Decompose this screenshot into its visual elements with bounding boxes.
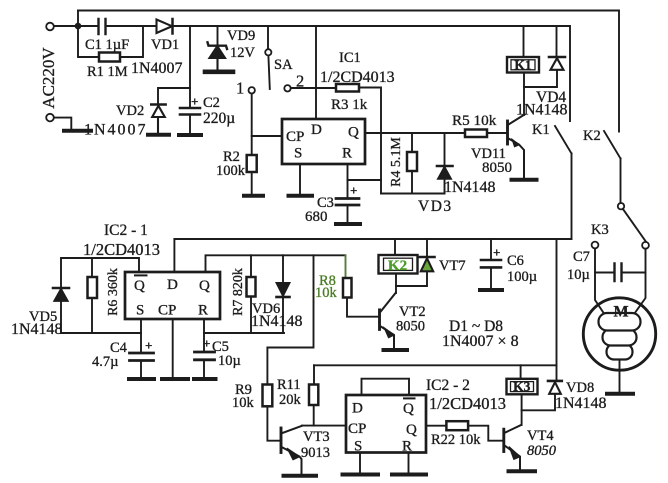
ground (VD9): [205, 70, 233, 75]
wire K3 right contact to motor: [635, 249, 646, 314]
capacitor C2: [180, 108, 200, 115]
diode VD8: [548, 381, 562, 394]
svg-text:1N4007: 1N4007: [131, 60, 183, 77]
wire 12V supply line VD1 to K1 corner: [173, 26, 570, 121]
IC2-1 box (1/2CD4013): [125, 272, 220, 319]
svg-text:1N4007: 1N4007: [84, 122, 148, 139]
svg-text:+: +: [203, 336, 210, 351]
switch K2 blade: [604, 131, 621, 159]
wire R9 bottom to VT3 base: [267, 406, 279, 440]
svg-text:1N4148: 1N4148: [555, 395, 607, 412]
svg-text:VT4: VT4: [527, 428, 554, 444]
wire R6 top lead: [91, 258, 93, 277]
switch K3 right contact: [642, 242, 649, 249]
AC terminal N circle: [46, 114, 54, 122]
svg-text:CP: CP: [158, 303, 176, 319]
wire K3 left contact to motor: [595, 248, 604, 313]
svg-text:S: S: [136, 303, 144, 319]
svg-text:8050: 8050: [396, 319, 425, 335]
svg-text:R7 820k: R7 820k: [231, 268, 246, 316]
resistor R6: [88, 277, 98, 298]
transistor VT3 (9013): [281, 426, 302, 474]
diode VT7 (green): [420, 257, 435, 271]
transistor VT4 (8050): [504, 425, 521, 470]
svg-text:IC2 - 2: IC2 - 2: [426, 377, 470, 394]
svg-text:10k: 10k: [315, 285, 338, 301]
ground (VT2 emitter): [384, 348, 408, 352]
wire VD4 bottom link to K1 coil: [524, 70, 557, 87]
svg-text:C7: C7: [573, 249, 590, 265]
ground (IC2-1 CP): [162, 377, 188, 381]
svg-text:8050: 8050: [527, 443, 557, 459]
svg-text:D: D: [311, 122, 322, 138]
capacitor C7: [615, 264, 622, 282]
svg-text:+: +: [191, 94, 198, 109]
wire R-pin net horizontal: [204, 332, 284, 334]
svg-text:R: R: [198, 303, 208, 319]
wire K1 coil bottom to collector: [523, 73, 525, 116]
wire IC1 Q output to R5: [365, 132, 465, 134]
wire VD6 top lead: [282, 255, 284, 282]
svg-text:R4 5.1M: R4 5.1M: [389, 137, 404, 187]
resistor R8: [343, 278, 352, 298]
wire drop to C2: [189, 26, 191, 107]
relay coil K3: [507, 379, 538, 395]
wire drop to VD9: [217, 26, 219, 44]
wire K1 coil top lead: [523, 26, 525, 57]
wire SA1 down to R2: [251, 94, 253, 155]
svg-text:680: 680: [305, 209, 328, 225]
wire 12V switched bus: [174, 238, 571, 240]
wire C6 to ground: [490, 268, 492, 288]
wire R4 top lead: [411, 133, 413, 152]
svg-text:IC2 - 1: IC2 - 1: [104, 222, 148, 239]
wire bus drop to C6: [490, 239, 492, 259]
wire K3 coil top lead: [520, 365, 522, 379]
svg-text:Q: Q: [406, 422, 417, 438]
switch SA contact 2: [284, 85, 290, 91]
wire K2 coil bottom to VT2 collector: [395, 274, 397, 294]
diode VD4: [549, 57, 565, 70]
wire VD4 top lead: [556, 26, 558, 56]
svg-text:R: R: [342, 146, 352, 162]
ground (C4): [129, 377, 154, 381]
resistor R1: [99, 53, 120, 62]
capacitor C1: [99, 19, 106, 34]
svg-text:CP: CP: [286, 129, 304, 145]
svg-text:1: 1: [236, 79, 244, 98]
wire IC2-2 Q to R22: [426, 425, 446, 427]
wire R7 bottom lead: [250, 297, 252, 334]
transistor VD11 (8050): [508, 115, 525, 179]
svg-text:M: M: [614, 304, 629, 321]
ground (R2): [244, 194, 263, 198]
diode VD1: [157, 19, 173, 34]
switch K3 common contact: [618, 203, 624, 209]
svg-text:R5 10k: R5 10k: [452, 112, 497, 129]
wire IC1 R pin down to C3: [347, 164, 349, 198]
resistor R11: [309, 385, 318, 406]
wire IC2-1 Q net top: [206, 255, 346, 272]
pin Qbar overbar (IC2-1): [134, 274, 148, 276]
wire IC2-2 R pin to ground: [408, 453, 410, 473]
wire VD6 bottom lead: [282, 298, 284, 334]
wire C1 to VD1: [106, 25, 156, 27]
wire K2 to K3 common: [620, 159, 622, 204]
wire motor bottom to ground: [619, 360, 621, 392]
svg-text:K3: K3: [591, 222, 609, 238]
svg-text:+: +: [145, 338, 152, 353]
wire R4 bottom lead: [411, 171, 413, 194]
wire bus drop to K2 coil: [394, 239, 396, 255]
svg-text:S: S: [294, 146, 302, 162]
wire C7 left link: [595, 272, 615, 274]
resistor R4: [407, 152, 417, 171]
wire R3 right down to R-net: [359, 88, 381, 194]
zener diode VD9 12V: [208, 42, 228, 70]
svg-text:1N4148: 1N4148: [251, 313, 303, 330]
svg-text:SA: SA: [274, 57, 293, 73]
pin Qbar overbar (IC2-2): [403, 397, 416, 399]
svg-text:VT7: VT7: [439, 258, 466, 274]
switch SA common contact: [265, 49, 271, 55]
wire VD2 branch: [158, 88, 190, 103]
svg-text:D: D: [352, 401, 363, 417]
ground (C5): [194, 377, 216, 381]
ground (C2): [179, 133, 201, 137]
wire R6 bottom lead: [91, 298, 93, 333]
ground (AC N): [64, 129, 91, 133]
wire SA1 node to IC1 CP: [252, 135, 282, 137]
svg-text:S: S: [354, 439, 362, 455]
svg-text:VD1: VD1: [151, 37, 179, 53]
svg-text:CP: CP: [348, 421, 366, 437]
svg-text:9013: 9013: [301, 445, 330, 461]
wire C4 to ground: [140, 362, 142, 378]
svg-text:10µ: 10µ: [218, 353, 241, 369]
ground (VD2): [148, 133, 169, 137]
svg-text:VT3: VT3: [303, 429, 330, 445]
wire IC2-1 R pin to C5: [203, 319, 205, 351]
svg-text:VD2: VD2: [116, 103, 144, 119]
wire bus drop to IC2-1 D: [173, 239, 175, 272]
svg-text:+: +: [493, 245, 500, 260]
switch SA blade: [268, 56, 269, 89]
diode VD3: [437, 166, 453, 179]
svg-text:1N4148: 1N4148: [516, 102, 568, 119]
relay coil K1: [507, 57, 539, 73]
wire R-net bottom rail: [381, 193, 445, 195]
wire VD3 top lead: [444, 133, 446, 165]
wire R1 loop right: [120, 26, 143, 57]
svg-text:VD9: VD9: [227, 28, 255, 44]
wire VD3 bottom lead: [444, 179, 446, 194]
diode VD6: [277, 283, 290, 297]
svg-text:VD3: VD3: [418, 198, 453, 215]
capacitor C3: [336, 199, 359, 206]
svg-text:C2: C2: [203, 95, 220, 111]
op-amp IC1 box (1/2CD4013): [282, 119, 365, 164]
wire R8 bottom to VT2 base: [347, 298, 379, 317]
transistor VT2 (8050): [380, 293, 396, 349]
wire IC2-2 S pin to ground: [359, 453, 361, 473]
svg-text:C1 1µF: C1 1µF: [85, 37, 129, 53]
switch SA contact 1: [249, 87, 255, 93]
wire C3 to ground: [347, 206, 349, 222]
diode VD2: [151, 105, 165, 134]
resistor R9: [263, 385, 273, 407]
node junction dot: [75, 23, 82, 30]
ground (motor): [607, 392, 633, 396]
IC2-2 box (1/2CD4013): [346, 395, 426, 453]
svg-text:100µ: 100µ: [507, 269, 537, 285]
AC terminal L circle: [46, 23, 54, 31]
wire IC2-1 CP pin to ground: [172, 319, 174, 377]
ground (IC2-2 R): [392, 473, 426, 477]
wire IC1 S pin to ground: [299, 164, 301, 194]
wire drop to switch SA: [267, 26, 269, 48]
switch K3 left contact: [592, 242, 599, 249]
svg-text:K2: K2: [583, 128, 601, 144]
wire K1 switch down to bus: [571, 154, 573, 239]
resistor R22: [446, 421, 468, 430]
svg-text:R6 360k: R6 360k: [106, 268, 121, 316]
switch K3 blade: [623, 209, 646, 242]
svg-text:1/2CD4013: 1/2CD4013: [429, 394, 506, 413]
ground (IC2-2 S): [343, 473, 379, 477]
svg-text:Q: Q: [403, 401, 414, 417]
wire AC terminal L to junction: [54, 25, 98, 27]
wire IC2-2 D-Qbar jumper: [362, 379, 410, 395]
svg-text:12V: 12V: [230, 45, 256, 61]
svg-text:Q: Q: [199, 278, 210, 294]
svg-text:2: 2: [296, 72, 304, 91]
svg-text:Q: Q: [134, 278, 145, 294]
motor winding: [599, 313, 641, 360]
wire bus drop to VT7: [426, 239, 428, 256]
wire R8 top lead: [345, 255, 347, 278]
motor M body circle: [583, 298, 655, 370]
wire VD8 bottom link: [522, 394, 555, 410]
svg-text:1/2CD4013: 1/2CD4013: [320, 69, 395, 86]
wire horizontal 12V to R11: [314, 364, 557, 366]
wire K3 coil bottom to VT4 collector: [521, 395, 523, 426]
wire drop to IC1 D pin: [315, 26, 317, 119]
wire R5 to VT11 base: [487, 132, 507, 134]
wire IC2-1 Q down to R9/R11 column: [267, 255, 313, 384]
wire R1 loop left: [78, 26, 99, 57]
wire VD5 bottom lead: [61, 301, 141, 333]
wire R11 bottom lead: [313, 405, 315, 426]
svg-text:10µ: 10µ: [567, 267, 590, 283]
svg-text:K2: K2: [388, 258, 407, 274]
resistor R2: [247, 155, 257, 172]
wire C5 to ground: [203, 361, 205, 377]
resistor R5: [465, 130, 487, 138]
svg-text:R11: R11: [277, 377, 301, 393]
svg-text:K3: K3: [513, 379, 531, 394]
switch K1 blade: [555, 126, 572, 154]
resistor R3: [336, 84, 359, 92]
wire R7 top lead: [250, 255, 252, 277]
svg-text:10k: 10k: [232, 395, 255, 411]
capacitor C4: [130, 353, 154, 361]
diode VD5: [53, 288, 69, 301]
svg-text:VD8: VD8: [566, 380, 594, 396]
top supply rail wire: [78, 11, 619, 132]
wire junction up to rail: [77, 11, 79, 27]
wire R pin link to R3 net: [348, 179, 382, 181]
wire R2 to ground: [251, 172, 253, 194]
svg-text:4.7µ: 4.7µ: [92, 354, 118, 370]
svg-text:1N4007 × 8: 1N4007 × 8: [442, 333, 519, 350]
svg-text:K1: K1: [532, 122, 550, 138]
relay coil K2: [379, 255, 418, 274]
svg-text:1/2CD4013: 1/2CD4013: [83, 240, 160, 259]
capacitor C6: [481, 260, 501, 267]
svg-text:AC220V: AC220V: [39, 47, 58, 109]
svg-text:K1: K1: [514, 58, 532, 73]
svg-text:220µ: 220µ: [203, 110, 235, 127]
wire R22 to VT4 base: [468, 426, 503, 441]
svg-text:1N4148: 1N4148: [11, 321, 63, 338]
wire C7 right link: [622, 272, 646, 274]
svg-text:IC1: IC1: [339, 50, 361, 66]
wire SA2 to R3: [291, 87, 336, 89]
wire R11 top link: [313, 365, 315, 384]
svg-text:1N4148: 1N4148: [444, 179, 496, 196]
capacitor C5: [195, 352, 215, 360]
wire VT3 collector to IC2-2 CP: [302, 425, 346, 427]
svg-text:D: D: [167, 277, 178, 293]
svg-text:+: +: [350, 183, 357, 198]
wire AC terminal N to ground: [54, 118, 71, 129]
ground (VT4 emitter): [509, 469, 536, 473]
wire VT7 bottom link: [396, 272, 427, 286]
wire IC2-1 S pin to C4: [140, 319, 142, 352]
resistor R7: [247, 277, 256, 297]
ground (IC1 S): [289, 194, 313, 198]
svg-text:R22 10k: R22 10k: [431, 432, 481, 448]
svg-text:100k: 100k: [216, 163, 246, 179]
ground (C3): [336, 222, 360, 226]
svg-text:R1 1M: R1 1M: [87, 64, 128, 80]
svg-text:Q: Q: [348, 125, 359, 141]
ground (VD11 emitter): [512, 178, 537, 182]
svg-text:20k: 20k: [279, 392, 302, 408]
svg-text:R: R: [402, 439, 412, 455]
svg-text:8050: 8050: [482, 160, 512, 176]
wire C2 to ground: [189, 116, 191, 134]
svg-text:C6: C6: [507, 253, 524, 269]
wire bus drop down to K3/VD8 feed: [556, 239, 558, 381]
ground (C6): [480, 288, 502, 292]
wire IC2-1 Qbar net to VD5/R6: [61, 258, 139, 287]
svg-text:R3 1k: R3 1k: [331, 97, 368, 113]
ground (VT3 emitter): [284, 474, 317, 478]
